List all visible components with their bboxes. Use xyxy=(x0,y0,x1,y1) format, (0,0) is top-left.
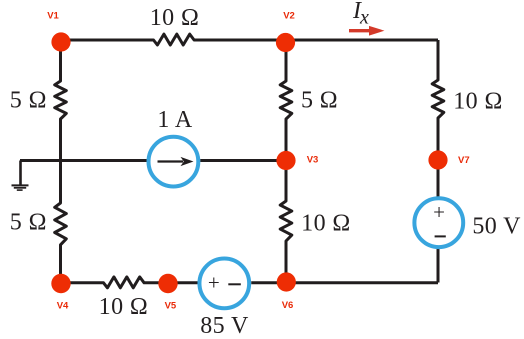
svg-text:5 Ω: 5 Ω xyxy=(301,88,338,114)
svg-text:V5: V5 xyxy=(165,301,177,312)
svg-text:5 Ω: 5 Ω xyxy=(10,210,47,236)
svg-text:V6: V6 xyxy=(282,300,294,311)
svg-text:10 Ω: 10 Ω xyxy=(301,211,350,237)
svg-text:V7: V7 xyxy=(458,155,470,166)
svg-text:x: x xyxy=(359,7,369,29)
svg-text:1 A: 1 A xyxy=(157,107,192,133)
svg-text:5 Ω: 5 Ω xyxy=(10,88,47,114)
svg-text:V3: V3 xyxy=(307,155,319,166)
svg-text:10 Ω: 10 Ω xyxy=(453,89,502,115)
svg-text:10 Ω: 10 Ω xyxy=(99,294,148,320)
svg-text:+: + xyxy=(208,270,220,294)
svg-text:50 V: 50 V xyxy=(472,214,521,240)
svg-text:V2: V2 xyxy=(283,11,295,22)
svg-text:V4: V4 xyxy=(57,301,69,312)
svg-text:+: + xyxy=(433,200,445,224)
svg-text:10 Ω: 10 Ω xyxy=(150,5,199,31)
svg-text:V1: V1 xyxy=(47,11,59,22)
svg-text:85 V: 85 V xyxy=(200,313,249,339)
